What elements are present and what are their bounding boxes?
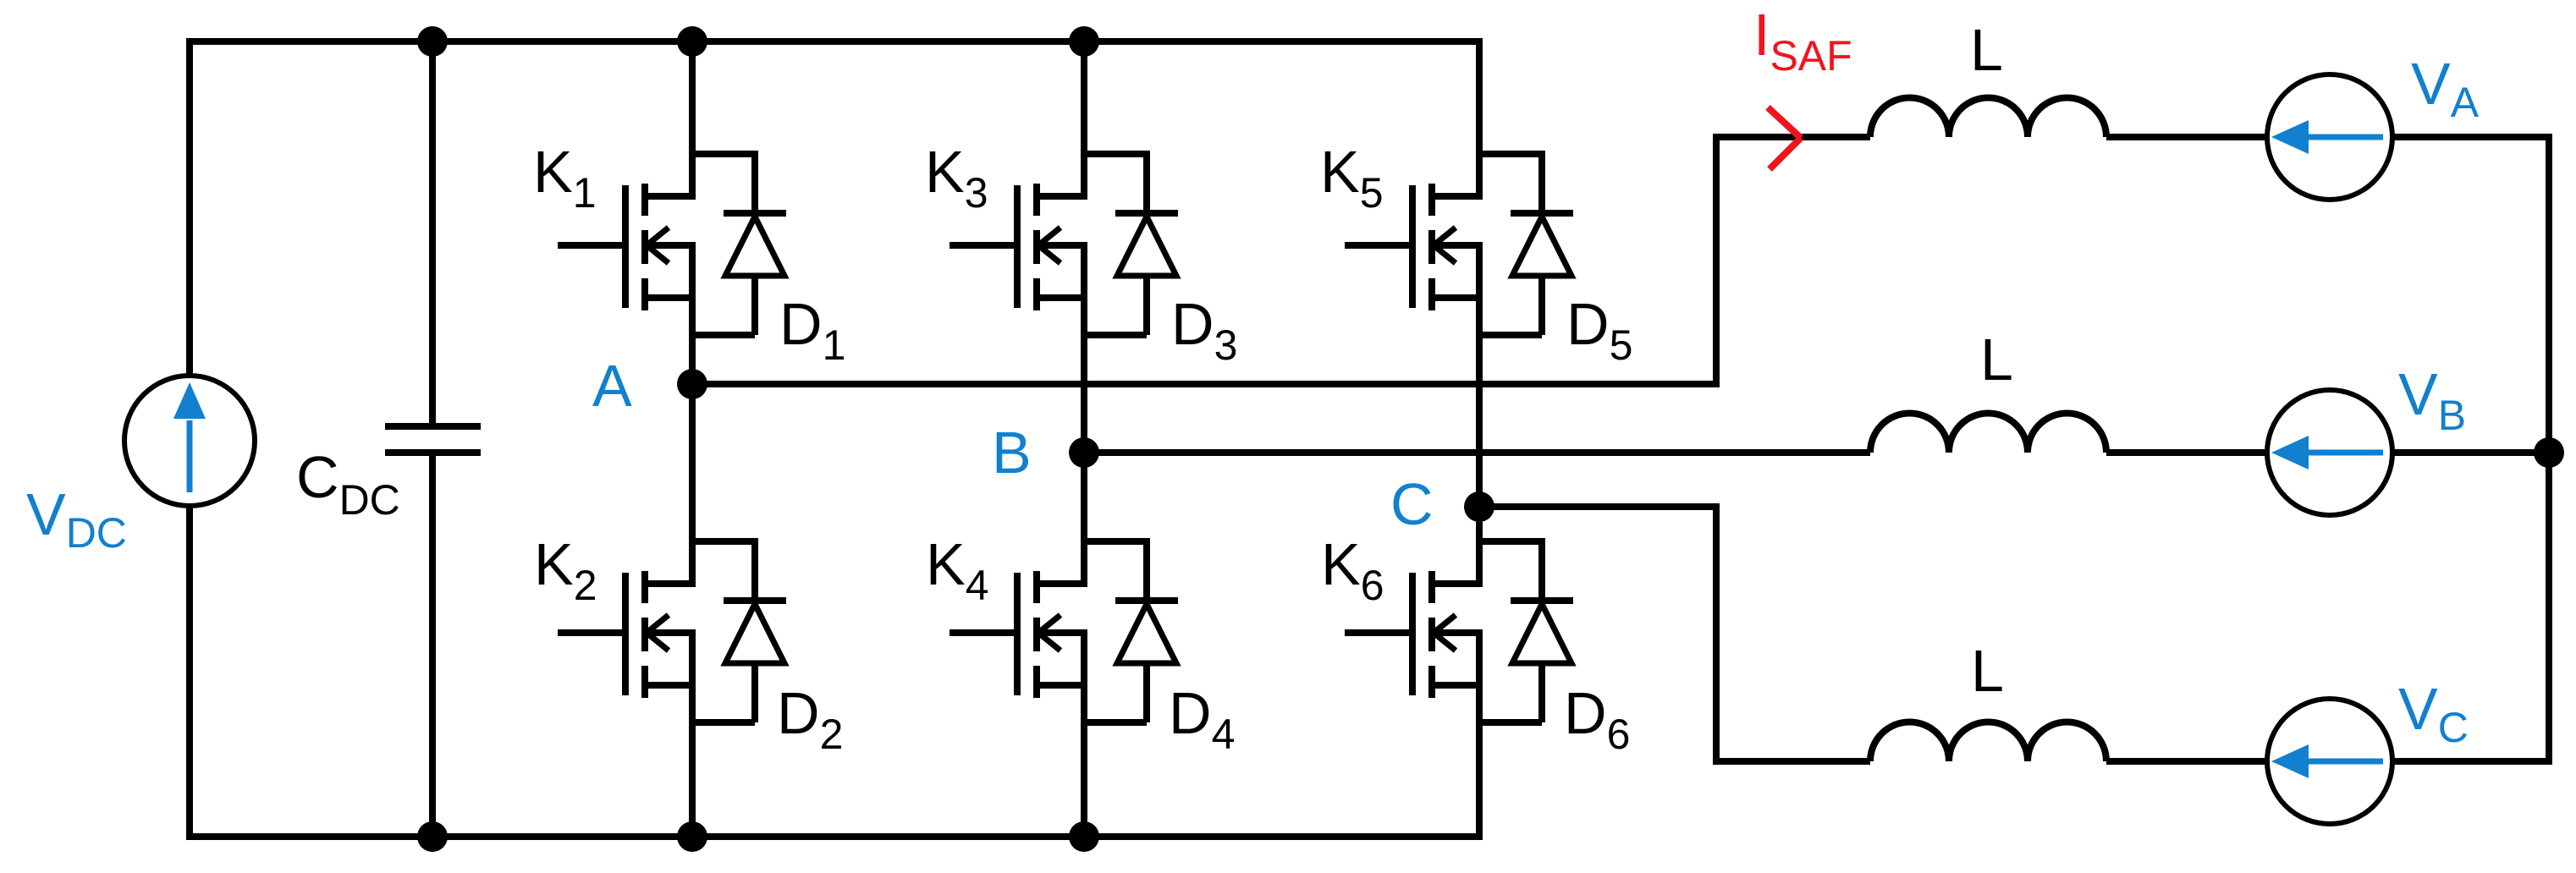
junction right vertical phase B	[2534, 437, 2564, 468]
wire bottom rail	[190, 833, 1479, 840]
diode D2	[724, 601, 786, 722]
transistor K4	[949, 571, 1087, 698]
wire K1-D1 bottom connector	[689, 332, 755, 338]
wire K6 source vertical	[1476, 633, 1483, 840]
wire K2 source vertical	[689, 633, 696, 840]
wire bend C vertical	[1716, 503, 1870, 761]
wire K6-D6 top connector	[1479, 541, 1542, 601]
wire K6-D6 bottom connector	[1476, 719, 1542, 726]
wire left vertical upper	[186, 38, 193, 378]
wire K3 source vertical	[1081, 245, 1087, 453]
diode D6	[1511, 601, 1573, 722]
wire bend A vertical	[1716, 137, 1870, 387]
inductor L phase B	[1870, 413, 2106, 453]
current arrow ISAF	[1768, 107, 1801, 169]
wire K5 source vertical	[1476, 245, 1483, 507]
wire node B to inductor	[1084, 449, 1870, 456]
junction bottom capacitor	[417, 821, 448, 852]
transistor K6	[1345, 571, 1483, 698]
wire K4-D4 top connector	[1084, 541, 1147, 601]
wire top rail	[190, 38, 1479, 45]
wire K2-D2 top connector	[692, 541, 755, 601]
wire K4-D4 bottom connector	[1081, 719, 1147, 726]
wire K2-D2 bottom connector	[689, 719, 755, 726]
source VC	[2106, 699, 2549, 824]
wire K3-D3 bottom connector	[1081, 332, 1147, 338]
wire K1 source vertical	[689, 245, 696, 384]
junction bottom leg B	[1069, 821, 1099, 852]
svg-text:A: A	[592, 353, 632, 419]
diode D5	[1511, 213, 1573, 335]
wire K4 source vertical	[1081, 633, 1087, 840]
diode D4	[1115, 601, 1178, 722]
transistor K3	[949, 184, 1087, 310]
wire left vertical lower	[186, 506, 193, 840]
wire leg C drain	[1476, 38, 1483, 196]
inductor L phase A	[1870, 98, 2106, 138]
wire capacitor top lead	[429, 41, 436, 424]
wire node A to bend	[692, 381, 1716, 387]
inductor L phase C	[1870, 722, 2106, 762]
wire K5-D5 top connector	[1479, 154, 1542, 213]
svg-text:L: L	[1971, 638, 2004, 704]
wire K3-D3 top connector	[1084, 154, 1147, 213]
svg-text:C: C	[1390, 471, 1434, 537]
diode D3	[1115, 213, 1178, 335]
transistor K5	[1345, 184, 1483, 310]
wire leg C lower drain	[1476, 507, 1483, 584]
source VB	[2106, 390, 2549, 515]
wire capacitor bottom lead	[429, 455, 436, 837]
wire leg A drain	[689, 38, 696, 196]
voltage source VDC	[124, 376, 255, 506]
junction top capacitor	[417, 26, 448, 57]
node A	[677, 369, 707, 399]
svg-text:B: B	[992, 420, 1032, 486]
junction top leg B	[1069, 26, 1099, 57]
svg-text:L: L	[1970, 17, 2003, 83]
node B	[1069, 437, 1099, 468]
source VA	[2106, 74, 2549, 200]
wire K1-D1 top connector	[692, 154, 755, 213]
svg-text:L: L	[1980, 327, 2013, 393]
junction top leg A	[677, 26, 707, 57]
wire leg B lower drain	[1081, 453, 1087, 584]
transistor K1	[558, 184, 696, 310]
diode D1	[724, 213, 786, 335]
wire leg A lower drain	[689, 384, 696, 584]
wire leg B drain	[1081, 38, 1087, 196]
wire right vertical	[2546, 134, 2552, 765]
wire node C to bend	[1479, 503, 1716, 510]
junction bottom leg A	[677, 821, 707, 852]
wire K5-D5 bottom connector	[1476, 332, 1542, 338]
capacitor CDC	[385, 426, 481, 453]
transistor K2	[558, 571, 696, 698]
node C	[1464, 491, 1494, 522]
